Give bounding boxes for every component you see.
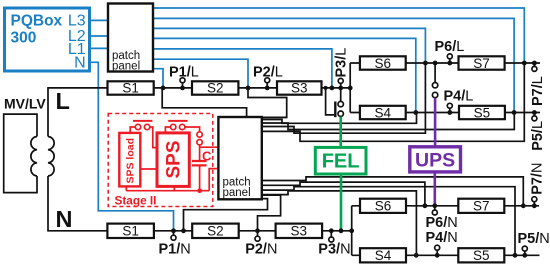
svg-text:L3: L3	[68, 12, 86, 29]
pin P2/N	[257, 231, 259, 237]
wire SPS load to SPS link	[140, 168, 157, 170]
wire patch panel to node after S7 N-side	[262, 177, 523, 206]
svg-text:S7: S7	[473, 199, 490, 214]
connector SPS plugs	[197, 132, 202, 137]
svg-text:S3: S3	[291, 81, 308, 96]
junction node P1/N riser	[181, 228, 186, 233]
junction node P1/L	[161, 86, 166, 91]
svg-text:S4: S4	[375, 248, 392, 263]
switch S4 (L)	[360, 106, 406, 119]
junction pin P6/L	[447, 61, 452, 66]
svg-text:N: N	[56, 206, 73, 232]
junction node P3/N green	[339, 228, 344, 233]
svg-text:S1: S1	[122, 81, 139, 96]
junction node P1/N blue	[171, 228, 176, 233]
svg-text:P1/N: P1/N	[159, 241, 191, 257]
junction node P4/N	[435, 253, 440, 258]
wire S7 to pin P7/N	[504, 205, 539, 207]
svg-text:S6: S6	[375, 56, 392, 71]
switch S5 (L)	[459, 106, 505, 119]
wire S5 to pin P5/L	[505, 112, 540, 114]
junction N riser	[349, 228, 354, 233]
wire capacitor to bottom bus	[199, 167, 201, 191]
switch SW2 bar	[168, 120, 187, 122]
wire patch panel to node after S5	[262, 113, 514, 130]
wire L bus S1 to S2	[154, 87, 192, 89]
wire N bus S1 to S2	[154, 230, 192, 232]
junction pin P3/N	[329, 228, 334, 233]
switch S3 (N)	[276, 224, 323, 238]
switch S2 (L)	[192, 81, 238, 94]
wire riser to S6 and S4 rows	[350, 63, 360, 113]
wire SPS bottom bus	[126, 190, 209, 192]
Stage II dashed enclosure	[108, 114, 213, 207]
wire SPS to SW2	[165, 127, 170, 133]
junction node P2/N	[255, 228, 260, 233]
pin P4/N	[436, 250, 438, 255]
wire node P2/L to patch panel	[248, 88, 287, 118]
junction pin P1/L	[180, 86, 185, 91]
svg-text:UPS: UPS	[415, 150, 455, 172]
wire bus to patch panel	[209, 169, 219, 191]
junction after S6 N	[423, 203, 428, 208]
svg-text:SPS: SPS	[164, 140, 185, 178]
svg-text:P3/L: P3/L	[333, 48, 349, 78]
transformer T1 secondary winding	[48, 137, 54, 177]
wire plug to capacitor C	[199, 145, 201, 160]
wire patch panel to node after S6	[262, 63, 425, 133]
transformer T1 primary winding	[31, 137, 37, 177]
svg-text:S2: S2	[207, 224, 224, 239]
svg-text:P2/L: P2/L	[253, 64, 283, 80]
svg-text:Stage II: Stage II	[115, 193, 157, 207]
switch S4 (N)	[360, 248, 406, 262]
wire S4 to S5 N-side	[406, 254, 458, 256]
junction plug drop S6 row	[433, 61, 438, 66]
svg-text:panel: panel	[223, 187, 251, 199]
junction after S5 N	[513, 253, 518, 258]
pin P7/L	[533, 63, 535, 66]
wire PQBox L1 to patch panel	[90, 47, 109, 49]
wire patch panel to node after S7	[262, 63, 524, 141]
junction pin P4/L	[447, 110, 452, 115]
wire green plug to FEL	[339, 117, 342, 147]
junction pin P7/N	[532, 203, 537, 208]
junction pin P5/L	[532, 110, 537, 115]
switch S6 (N)	[360, 199, 406, 213]
patch panel U1 (top)	[108, 4, 153, 72]
svg-text:N: N	[74, 54, 86, 71]
svg-text:C: C	[202, 149, 212, 164]
pin P1/N	[173, 231, 175, 236]
wire PQBox L2 to patch panel	[90, 35, 109, 37]
SPS load unit	[119, 133, 140, 187]
switch SW1 bar	[133, 120, 152, 122]
wire SPS load to SW1	[130, 127, 135, 133]
wire patch channel to node P1/L	[153, 69, 163, 88]
switch SW1 contacts	[135, 124, 140, 129]
switch S6 (L)	[360, 56, 406, 69]
wire patch channel to node after S6	[153, 28, 425, 63]
PQBox 300 analyzer	[5, 8, 90, 71]
wire node P3 bar feed	[326, 88, 335, 115]
junction after S6	[423, 61, 428, 66]
switch S1 (L)	[108, 81, 154, 94]
wire S7 to pin P7/L	[505, 62, 540, 64]
wire SW2 to plug	[185, 127, 200, 132]
svg-text:SPS load: SPS load	[125, 138, 137, 184]
wire N bus S2 to S3	[239, 230, 276, 232]
wire patch channel to node after S7	[153, 8, 524, 63]
svg-text:P4/L: P4/L	[444, 88, 474, 104]
wire L bus S3 to riser	[322, 87, 351, 89]
wire patch panel to node after S4 N-side	[262, 191, 416, 255]
svg-text:S4: S4	[375, 105, 392, 120]
svg-text:S5: S5	[473, 248, 490, 263]
svg-text:P2/N: P2/N	[245, 241, 277, 257]
svg-text:P7/N: P7/N	[529, 163, 545, 195]
svg-text:S1: S1	[122, 224, 139, 239]
wire purple plug to UPS	[434, 98, 437, 147]
wire patch channel to node after S5	[153, 18, 514, 112]
pin P5/N	[524, 251, 526, 256]
patch panel U2 (lower)	[218, 117, 261, 199]
wire N riser to S6 and S4 rows	[352, 206, 360, 256]
wire patch panel stub top	[262, 116, 287, 118]
wire S6 to S7	[406, 62, 459, 64]
pin P1/L	[182, 82, 184, 88]
svg-text:P6/L: P6/L	[435, 39, 465, 55]
pin P3/N	[330, 231, 332, 237]
wire UPS to node P6/N	[433, 172, 436, 206]
pin P4/L	[449, 108, 451, 113]
junction after S7 N	[521, 203, 526, 208]
switch S3 (L)	[277, 81, 322, 94]
wire SPS to bus	[173, 186, 175, 190]
wire patch panel to node after S4	[262, 113, 417, 124]
pin P7/N	[533, 202, 535, 206]
svg-text:P5/L: P5/L	[530, 121, 546, 151]
junction node P3/L pin	[338, 86, 343, 91]
svg-text:P7/L: P7/L	[530, 76, 546, 106]
wire S5 to right edge N-side	[504, 254, 539, 256]
svg-text:S7: S7	[473, 56, 490, 71]
svg-text:S2: S2	[207, 81, 224, 96]
wire patch channel to node P3/L	[153, 49, 332, 88]
pin P5/L	[533, 113, 535, 116]
transformer T1 primary leads MV	[4, 114, 37, 193]
svg-text:FEL: FEL	[322, 151, 360, 173]
svg-text:S3: S3	[291, 224, 308, 239]
wire N bus from transformer to S1	[48, 176, 107, 231]
switch S5 (N)	[458, 248, 504, 262]
connector node P3 bar	[334, 102, 336, 118]
junction after S5	[512, 110, 517, 115]
FEL load box	[315, 147, 366, 174]
pin P3/L	[340, 83, 342, 88]
wire patch channel to node P2/L	[153, 59, 248, 88]
wire PQBox N channel to node P1/N	[90, 62, 174, 231]
wire patch panel to node after S5 N-side	[262, 187, 515, 256]
wire PQBox L3 to patch panel	[90, 19, 109, 21]
wire FEL to node P3/N	[340, 174, 343, 230]
junction SPS bus node	[197, 188, 202, 193]
connector node P3 stem	[340, 88, 342, 102]
wire node P1/L to patch panel top	[162, 88, 246, 117]
junction node P2/L	[246, 86, 251, 91]
junction node P3 bar feed	[324, 86, 328, 90]
svg-text:PQBox: PQBox	[11, 12, 63, 29]
svg-text:MV/LV: MV/LV	[4, 96, 46, 112]
switch SW2 contacts	[171, 124, 176, 129]
wire N bus S3 to riser	[322, 230, 352, 232]
connector node P3 plugs	[338, 101, 343, 106]
junction after S7	[522, 61, 527, 66]
svg-text:P3/N: P3/N	[318, 241, 350, 257]
wire S4 to S5	[406, 112, 459, 114]
switch S2 (N)	[192, 224, 239, 238]
junction after S4 N	[414, 253, 419, 258]
connector node P4/L stem	[434, 63, 436, 83]
junction node P6/N	[432, 203, 437, 208]
wire SPS load to bus	[125, 186, 127, 190]
wire L bus from transformer to S1	[48, 88, 108, 137]
svg-text:P5/N: P5/N	[518, 231, 550, 247]
junction pin P7/L	[532, 61, 537, 66]
svg-text:P6/N: P6/N	[426, 215, 458, 231]
svg-text:300: 300	[11, 29, 37, 46]
switch S7 (N)	[458, 199, 504, 213]
capacitor C plates	[192, 161, 207, 165]
pin P6/N	[434, 206, 436, 211]
junction node P3/L blue	[330, 86, 335, 91]
wire patch channel to node after S4	[153, 38, 416, 112]
svg-text:S6: S6	[375, 199, 392, 214]
wire L bus S2 to S3	[238, 87, 277, 89]
switch S7 (L)	[459, 56, 505, 69]
junction L riser	[348, 86, 353, 91]
wire node P1/N to patch panel	[184, 199, 268, 231]
svg-text:P1/L: P1/L	[169, 64, 199, 80]
wire node P2/N to patch panel	[258, 195, 281, 231]
UPS box	[410, 147, 461, 172]
switch S1 (N)	[107, 224, 153, 238]
junction after S4	[413, 110, 418, 115]
svg-text:L: L	[56, 88, 70, 114]
junction pin P5/N	[522, 253, 527, 258]
svg-text:P4/N: P4/N	[426, 230, 458, 246]
svg-text:S5: S5	[474, 105, 491, 120]
svg-text:panel: panel	[112, 60, 140, 72]
junction pin P2/L	[265, 86, 270, 91]
wire SPS tap to patch panel	[200, 146, 220, 148]
pin P2/L	[266, 82, 268, 88]
connector node P4/L plugs	[432, 83, 437, 88]
wire S6 to S7 N-side	[406, 205, 458, 207]
wire SW1 to SPS	[150, 127, 157, 148]
wire patch panel to node after S6 N-side	[262, 182, 425, 206]
pin P6/L	[449, 59, 451, 63]
SPS unit	[157, 133, 189, 187]
